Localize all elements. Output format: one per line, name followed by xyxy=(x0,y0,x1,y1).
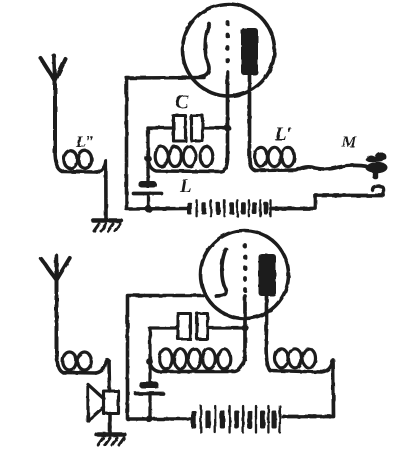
coil L' (top): baseline xyxy=(255,168,297,172)
capacitor C plate 1 xyxy=(174,116,186,142)
grid condenser (top circuit, unlabeled) xyxy=(134,181,162,209)
ground (bottom circuit) xyxy=(97,435,125,446)
wire: output coil down to battery (bottom) xyxy=(283,360,334,417)
tube V2 plate lead into output coil xyxy=(266,295,270,371)
tank coil (bottom): baseline xyxy=(150,358,245,372)
capacitor (bottom) plate 1 xyxy=(178,314,191,340)
tank coil loops (bottom) xyxy=(160,349,173,369)
antenna (top circuit) xyxy=(41,56,66,153)
node: grid lead / capacitor junction (top) xyxy=(224,125,231,132)
antenna coupling coil (bottom) xyxy=(63,352,77,370)
svg-text:M: M xyxy=(341,134,357,151)
output coil (bottom): baseline xyxy=(270,361,333,372)
capacitor (bottom): left lead xyxy=(150,326,178,329)
capacitor (bottom) right lead xyxy=(208,326,246,329)
coil L" (antenna coupling coil, top) xyxy=(64,151,77,169)
wire: speaker to ground (bottom) xyxy=(108,414,112,434)
capacitor C right lead xyxy=(203,126,228,129)
wire: antenna down-lead into coil (top) xyxy=(55,150,97,172)
wire: coil L' to device M xyxy=(297,165,383,170)
wire: coil to ground (top) xyxy=(97,161,106,219)
wire: antenna into coil (bottom) xyxy=(57,350,97,373)
coil L' loops xyxy=(255,147,268,166)
node: grid lead junction (bottom) xyxy=(242,325,249,332)
wire: coil to speaker (bottom) xyxy=(96,360,110,391)
tube V1 grid lead xyxy=(226,72,230,161)
tube V1 grid (dotted) xyxy=(226,22,230,69)
capacitor (bottom) plate 2 xyxy=(197,314,208,340)
output coil loops (bottom) xyxy=(275,349,288,368)
battery (bottom circuit) xyxy=(191,406,280,433)
battery (top circuit) xyxy=(187,200,271,216)
wire: filament to left rail down to bottom rail (bottom) xyxy=(128,296,204,420)
capacitor C plate 2 xyxy=(192,116,203,142)
tube V1 plate xyxy=(241,28,258,75)
coil L (tank coil, top): baseline wire xyxy=(148,159,228,172)
tube V1 envelope (top) xyxy=(183,4,275,96)
wire: M lower terminal hook xyxy=(373,186,384,195)
loudspeaker (phone) xyxy=(104,391,119,414)
svg-text:L: L xyxy=(179,176,192,197)
node: bottom-left junction (top circuit) xyxy=(145,206,152,213)
tube V2 grid lead xyxy=(243,296,247,359)
wire: LC left vertical (bottom) xyxy=(148,328,151,381)
node: bottom-left junction (bottom circuit) xyxy=(146,415,153,422)
svg-text:L″: L″ xyxy=(75,134,95,151)
wire: lower rail from M to battery (top) xyxy=(271,196,384,209)
tube V2 plate xyxy=(259,254,277,296)
svg-text:L′: L′ xyxy=(274,124,292,145)
loudspeaker horn xyxy=(88,385,104,422)
tube V2 envelope (bottom) xyxy=(201,231,289,319)
coil L loops xyxy=(155,147,168,167)
device M (top contact blob) xyxy=(366,152,388,179)
svg-text:C: C xyxy=(175,91,189,113)
grid condenser (bottom circuit) xyxy=(136,382,164,420)
node: coil-left junction (bottom) xyxy=(146,358,153,365)
node: coil-left junction (top) xyxy=(145,155,152,162)
wire: filament to left rail down to bottom rail (top) xyxy=(127,78,205,210)
ground (top circuit) xyxy=(93,221,121,232)
wire: LC left vertical (top) xyxy=(146,128,149,181)
capacitor C (top): left lead xyxy=(148,126,174,129)
antenna (bottom circuit) xyxy=(41,256,69,353)
tube V1 filament xyxy=(200,24,210,77)
tube V2 filament xyxy=(216,249,226,296)
tube V2 grid (dotted) xyxy=(243,245,247,291)
tube V1 plate lead into coil L' xyxy=(250,74,256,171)
